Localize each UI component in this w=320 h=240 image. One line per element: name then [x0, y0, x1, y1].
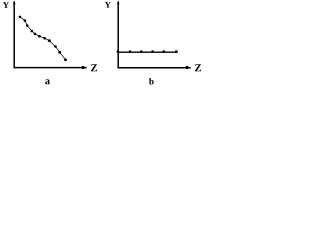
caption a — [45, 79, 50, 84]
Y axis arrowhead (left) — [13, 0, 16, 4]
label Y (right) — [105, 2, 111, 8]
Y axis (right) — [117, 2, 119, 69]
Z axis (left) — [13, 67, 86, 69]
Z axis arrow dot (right) — [185, 66, 188, 69]
Z axis (right) — [117, 67, 190, 69]
label Z (left) — [91, 64, 97, 71]
data dots (right) — [117, 50, 178, 53]
Z axis arrow dot (left) — [81, 66, 84, 69]
data curve (left): decreasing polyline — [20, 17, 66, 60]
label Z (right) — [195, 64, 201, 71]
label Y (left) — [3, 2, 9, 8]
Y axis arrowhead (right) — [117, 0, 120, 4]
caption b — [149, 78, 154, 85]
data line (right): constant level — [118, 51, 178, 53]
Y axis (left) — [13, 2, 15, 68]
data dots (left) — [19, 16, 67, 62]
